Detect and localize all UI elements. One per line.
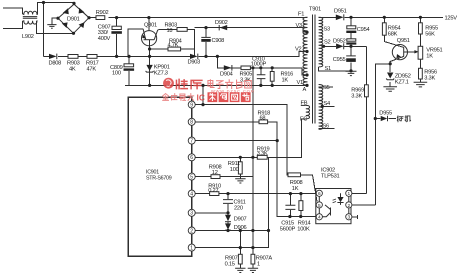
svg-text:FC: FC	[300, 116, 307, 122]
svg-text:0.27: 0.27	[208, 188, 218, 194]
svg-text:D902: D902	[215, 20, 228, 26]
svg-text:STR-S6709: STR-S6709	[146, 176, 172, 182]
svg-text:D952: D952	[333, 38, 346, 44]
svg-text:V2: V2	[295, 46, 302, 52]
svg-text:8: 8	[190, 120, 193, 126]
svg-text:400V: 400V	[98, 36, 111, 42]
svg-text:100: 100	[112, 71, 121, 77]
svg-text:R907: R907	[225, 255, 238, 261]
svg-text:56K: 56K	[425, 31, 435, 37]
svg-text:6: 6	[190, 155, 193, 161]
svg-text:6: 6	[318, 191, 321, 197]
svg-text:100K: 100K	[297, 226, 310, 232]
svg-text:2: 2	[347, 203, 350, 209]
svg-text:1000P: 1000P	[251, 62, 267, 68]
svg-text:47K: 47K	[87, 66, 97, 72]
svg-text:68: 68	[260, 115, 266, 121]
svg-text:3.3K: 3.3K	[424, 75, 435, 81]
svg-text:9: 9	[190, 103, 193, 109]
svg-text:7: 7	[190, 139, 193, 145]
svg-text:100: 100	[230, 167, 239, 173]
svg-text:R902: R902	[96, 10, 109, 16]
svg-text:D907: D907	[234, 216, 247, 222]
svg-text:1: 1	[347, 191, 350, 197]
svg-text:IC901: IC901	[146, 169, 159, 175]
svg-text:C908: C908	[212, 38, 225, 44]
svg-text:TLP531: TLP531	[321, 174, 340, 180]
svg-text:V3: V3	[296, 23, 303, 29]
svg-text:Q801: Q801	[144, 22, 157, 28]
svg-text:T901: T901	[309, 6, 321, 12]
svg-text:18: 18	[167, 28, 173, 34]
svg-text:3.3K: 3.3K	[257, 151, 268, 157]
svg-text:12: 12	[212, 170, 218, 176]
svg-text:D808: D808	[49, 60, 62, 66]
svg-text:Q951: Q951	[397, 38, 410, 44]
svg-text:S3: S3	[324, 26, 331, 32]
svg-text:C954: C954	[357, 27, 370, 33]
svg-text:4: 4	[318, 215, 321, 221]
svg-text:IC902: IC902	[321, 167, 335, 173]
svg-text:FB: FB	[301, 100, 308, 106]
svg-text:C955: C955	[333, 57, 346, 63]
svg-text:1: 1	[190, 246, 193, 252]
svg-text:S4: S4	[324, 101, 331, 107]
svg-text:2: 2	[190, 228, 193, 234]
svg-text:D903: D903	[188, 59, 201, 65]
svg-text:5600P: 5600P	[280, 226, 296, 232]
svg-text:S2: S2	[324, 39, 331, 45]
svg-text:F1: F1	[298, 11, 304, 17]
svg-text:5: 5	[190, 175, 193, 181]
svg-text:D904: D904	[220, 71, 233, 77]
svg-text:3: 3	[190, 211, 193, 217]
svg-text:S5: S5	[323, 85, 330, 91]
svg-text:D955: D955	[379, 110, 392, 116]
svg-text:1K: 1K	[282, 77, 289, 83]
svg-text:D901: D901	[67, 16, 80, 22]
svg-text:220: 220	[234, 205, 243, 211]
svg-text:1K: 1K	[426, 53, 433, 59]
svg-text:S6: S6	[323, 123, 330, 129]
svg-text:S1: S1	[325, 66, 332, 72]
svg-text:1K: 1K	[292, 186, 299, 192]
svg-text:3: 3	[347, 215, 350, 221]
svg-text:0.15: 0.15	[225, 262, 235, 268]
svg-text:68K: 68K	[388, 31, 398, 37]
svg-text:D951: D951	[334, 8, 347, 14]
svg-text:KZ7.1: KZ7.1	[395, 79, 409, 85]
svg-text:4K: 4K	[69, 66, 76, 72]
svg-text:1: 1	[257, 262, 260, 268]
svg-text:V1: V1	[297, 80, 304, 86]
svg-text:4.7K: 4.7K	[168, 42, 179, 48]
svg-text:125V: 125V	[445, 15, 458, 21]
svg-text:A: A	[303, 87, 307, 93]
svg-text:4: 4	[190, 192, 193, 198]
svg-text:3.3K: 3.3K	[351, 93, 362, 99]
svg-text:D906: D906	[234, 225, 247, 231]
svg-text:IC: IC	[197, 92, 205, 102]
svg-text:KZ7.3: KZ7.3	[154, 70, 168, 76]
svg-text:R907A: R907A	[256, 255, 273, 261]
svg-text:5: 5	[318, 203, 321, 209]
svg-text:L902: L902	[22, 34, 34, 40]
